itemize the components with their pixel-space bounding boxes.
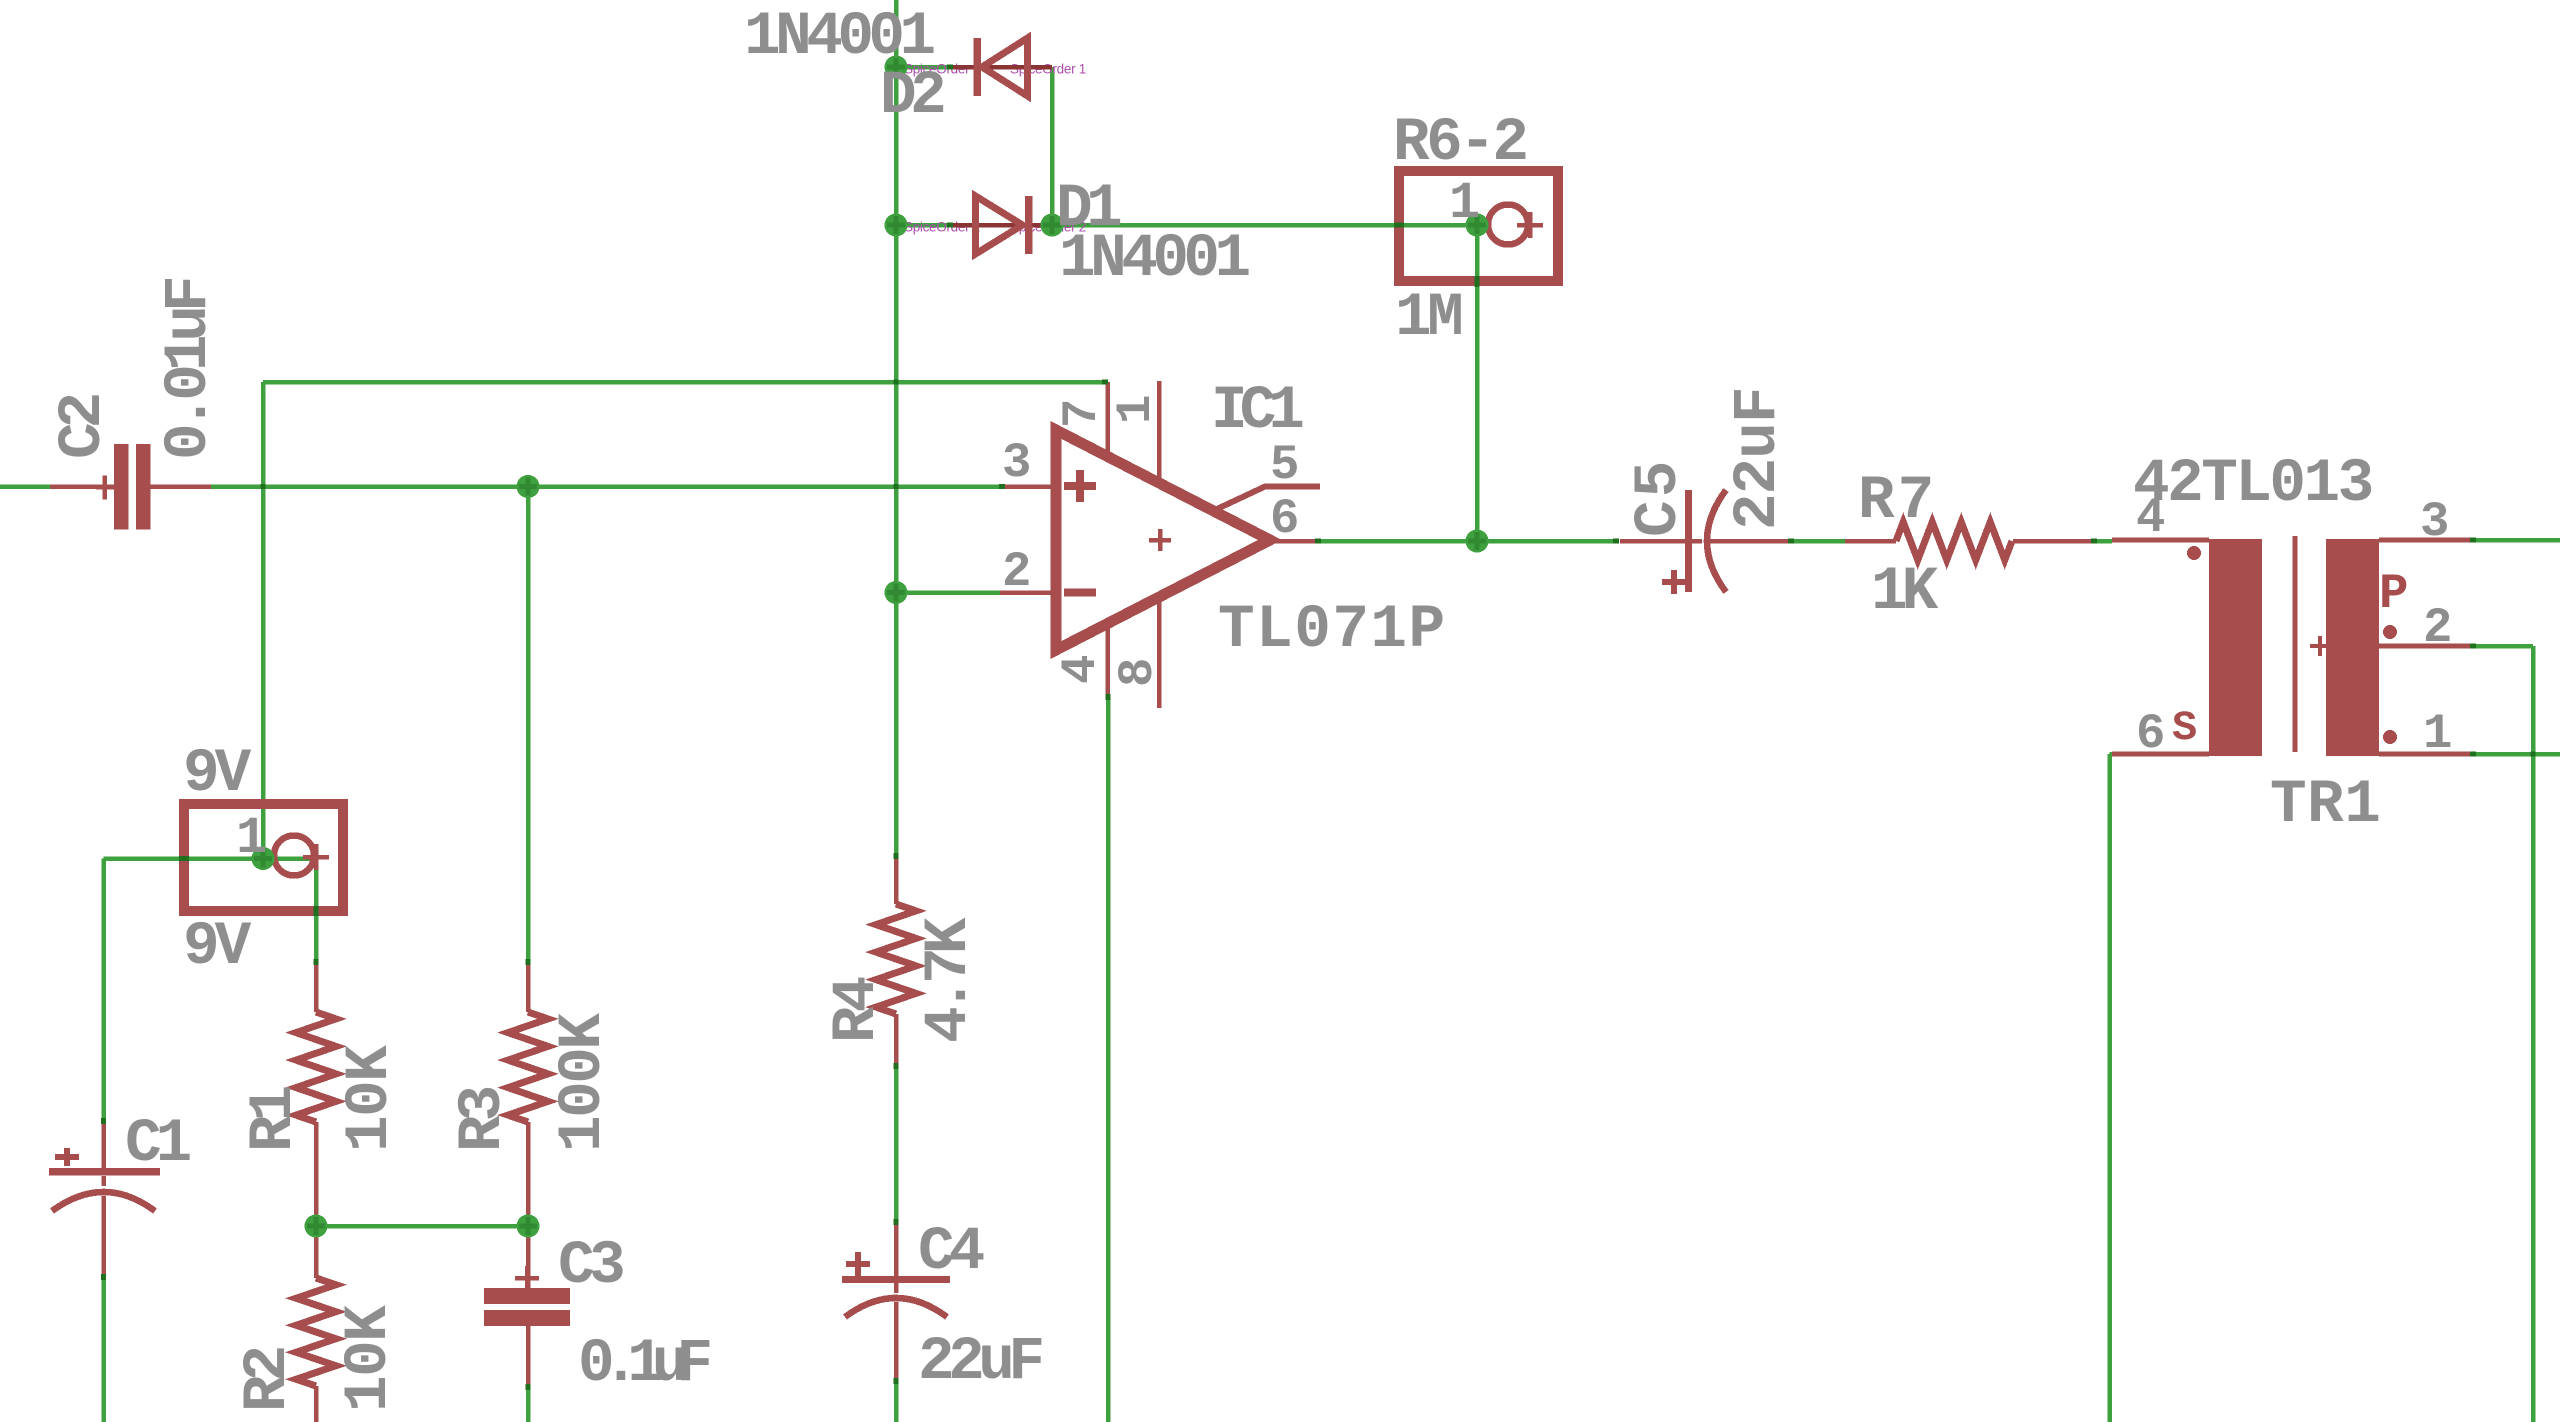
junction node R3-C3 bbox=[517, 1215, 540, 1238]
svg-text:1: 1 bbox=[236, 809, 267, 868]
svg-text:2: 2 bbox=[1002, 544, 1031, 600]
svg-text:TR1: TR1 bbox=[2270, 771, 2381, 840]
svg-text:C5: C5 bbox=[1625, 458, 1694, 537]
op-amp IC1 pin 6 output stub bbox=[1270, 539, 1315, 544]
svg-text:C4: C4 bbox=[918, 1218, 984, 1287]
junction node D1 right bbox=[1041, 214, 1064, 237]
capacitor C5 stub bbox=[1692, 539, 1702, 544]
transformer TR1 pin 3 lead bbox=[2379, 538, 2474, 543]
op-amp IC1 minus input mark bbox=[1064, 589, 1096, 597]
wire 9V row down to C1 bbox=[101, 859, 106, 1119]
diode D1 anode triangle (points right) bbox=[976, 196, 1023, 254]
capacitor C3 top lead bbox=[526, 1226, 531, 1288]
wire C3 bottom to lower edge bbox=[526, 1386, 531, 1422]
op-amp IC1 pin 4 stub bbox=[1105, 624, 1110, 697]
capacitor C5 plus mark bbox=[1662, 570, 1686, 594]
transformer TR1 pin 1 lead bbox=[2379, 752, 2474, 757]
transformer TR1 core line bbox=[2293, 536, 2298, 752]
wire TR1 pin 2 corner down bbox=[2474, 646, 2533, 1422]
op-amp IC1 pin 5 stub bbox=[1217, 487, 1320, 510]
wire op-amp output to C5 bbox=[1315, 539, 1614, 544]
svg-text:R1: R1 bbox=[240, 1086, 309, 1152]
svg-text:0.01uF: 0.01uF bbox=[155, 279, 224, 460]
transformer TR1 secondary winding block bbox=[2326, 539, 2379, 756]
svg-text:3: 3 bbox=[1002, 435, 1031, 491]
capacitor C3 bottom lead bbox=[526, 1326, 531, 1386]
junction node op-amp output bbox=[1466, 530, 1489, 553]
op-amp IC1 pin 3 stub bbox=[1000, 484, 1056, 489]
capacitor C1 bottom lead bbox=[101, 1196, 106, 1278]
wire crossing overlap marks bbox=[894, 380, 899, 385]
wire top row to op-amp pin 7 bbox=[263, 380, 1105, 385]
svg-text:1: 1 bbox=[1449, 174, 1480, 233]
capacitor C4 stub bbox=[894, 1283, 899, 1293]
svg-text:4: 4 bbox=[1053, 655, 1109, 684]
capacitor C4 negative arc bbox=[845, 1298, 947, 1317]
wire R6-2 pin down to op-amp output node bbox=[1475, 225, 1480, 541]
junction node 9V pin 1 bbox=[252, 847, 275, 870]
junction node R1-R2 bbox=[305, 1215, 328, 1238]
op-amp IC1 plus input mark bbox=[1064, 470, 1096, 502]
capacitor C5 negative arc bbox=[1707, 490, 1726, 592]
junction node op-amp pin 2 bbox=[885, 581, 908, 604]
transformer TR1 pin 4 lead bbox=[2112, 538, 2209, 543]
resistor R2 top lead bbox=[314, 1226, 319, 1278]
capacitor C1 negative arc bbox=[52, 1192, 155, 1211]
capacitor C4 top lead bbox=[894, 1224, 899, 1276]
wire C2 to op-amp pin 3 bbox=[211, 484, 1000, 489]
wire main vertical net at x=896 from top edge to R4 bbox=[894, 0, 899, 855]
wire R1 bottom to R2 top junction row bbox=[316, 1224, 528, 1229]
resistor R7 right lead bbox=[2013, 539, 2092, 544]
capacitor C5 right lead bbox=[1709, 539, 1792, 544]
svg-text:10K: 10K bbox=[335, 1305, 404, 1412]
wire op-amp pin 4 down to bottom edge bbox=[1106, 697, 1111, 1422]
svg-text:6: 6 bbox=[1270, 491, 1299, 547]
capacitor C1 plus mark bbox=[55, 1148, 79, 1166]
connector 9V pin circle bbox=[274, 836, 314, 876]
wire R4 bottom to C4 top bbox=[894, 1067, 899, 1224]
diode D2 triangle (points left) bbox=[982, 38, 1028, 96]
transformer TR1 pin 1 phase dot bbox=[2383, 730, 2397, 744]
resistor R4 bottom lead bbox=[894, 1014, 899, 1067]
wire TR1 pin 6 corner down to bottom edge bbox=[2110, 754, 2113, 1422]
resistor R2 bottom lead to edge bbox=[314, 1386, 319, 1422]
capacitor C1 top lead bbox=[101, 1118, 106, 1168]
svg-text:D2: D2 bbox=[880, 62, 944, 131]
svg-text:IC1: IC1 bbox=[1211, 377, 1303, 446]
resistor R1 zigzag bbox=[296, 1012, 336, 1122]
wire op-amp pin 2 from junction bbox=[896, 590, 1000, 595]
capacitor C2 origin cross bbox=[96, 476, 114, 500]
svg-text:8: 8 bbox=[1110, 658, 1166, 687]
resistor R1 top lead bbox=[314, 959, 319, 1012]
wire C5 to R7 bbox=[1792, 539, 1845, 544]
op-amp IC1 pin 8 stub bbox=[1157, 597, 1162, 708]
op-amp IC1 triangle bbox=[1056, 430, 1270, 650]
wire C4 bottom to lower edge bbox=[894, 1382, 899, 1422]
resistor R4 top lead bbox=[894, 855, 899, 904]
svg-text:S: S bbox=[2172, 704, 2197, 752]
resistor R4 zigzag bbox=[876, 904, 916, 1014]
diode D1 cathode bar bbox=[1025, 196, 1033, 254]
wire 9V pin 1 horizontal bbox=[104, 856, 319, 861]
svg-text:1N4001: 1N4001 bbox=[1059, 225, 1250, 294]
svg-text:22uF: 22uF bbox=[1724, 388, 1793, 530]
svg-text:R4: R4 bbox=[823, 977, 892, 1043]
junction node R6-2 pin 1 bbox=[1466, 214, 1489, 237]
transformer TR1 pin 6 lead bbox=[2112, 752, 2209, 757]
svg-text:9V: 9V bbox=[183, 740, 252, 809]
svg-text:1: 1 bbox=[1108, 395, 1164, 424]
capacitor C5 positive plate bbox=[1685, 490, 1692, 592]
svg-text:C2: C2 bbox=[49, 394, 118, 459]
op-amp IC1 center cross bbox=[1149, 529, 1171, 551]
svg-text:C3: C3 bbox=[558, 1232, 623, 1301]
wire D2 row left segment bbox=[896, 65, 950, 70]
resistor R3 top lead bbox=[526, 959, 531, 1012]
capacitor C2 left lead bbox=[50, 484, 114, 489]
resistor R2 zigzag bbox=[296, 1278, 336, 1386]
svg-text:C1: C1 bbox=[125, 1110, 191, 1179]
op-amp IC1 pin 2 stub bbox=[1000, 590, 1056, 595]
junction dot cores (overlap shading) bbox=[254, 58, 1486, 1235]
svg-text:1: 1 bbox=[2423, 706, 2452, 762]
diode D2 lead (dark where SpiceOrder text overlaps) bbox=[950, 65, 1052, 70]
wire vertical from top row down to 9V pin 1 bbox=[261, 382, 266, 859]
junction node D2 left bbox=[885, 56, 908, 79]
wire 9V pin down to R1 bbox=[314, 860, 319, 959]
svg-text:R2: R2 bbox=[234, 1347, 303, 1412]
connector 9V box bbox=[184, 804, 343, 911]
wire TR1 pin 3 to right edge bbox=[2474, 538, 2560, 543]
svg-text:R6-2: R6-2 bbox=[1393, 109, 1526, 178]
wire C1 bottom to lower edge bbox=[101, 1278, 106, 1422]
transformer TR1 pin 4 phase dot bbox=[2187, 546, 2201, 560]
capacitor C5 left lead bbox=[1620, 539, 1685, 544]
wire D1 row left segment bbox=[896, 223, 950, 228]
capacitor C2 right plate bbox=[136, 444, 151, 530]
diode D2 cathode bar bbox=[974, 38, 982, 96]
svg-text:4.7K: 4.7K bbox=[915, 917, 984, 1043]
transformer TR1 pin 2 lead bbox=[2379, 644, 2474, 649]
svg-text:TL071P: TL071P bbox=[1218, 596, 1447, 665]
svg-text:1M: 1M bbox=[1395, 284, 1461, 353]
capacitor C3 origin cross bbox=[515, 1266, 539, 1290]
svg-text:R7: R7 bbox=[1858, 467, 1937, 536]
svg-text:6: 6 bbox=[2136, 706, 2165, 762]
svg-text:R3: R3 bbox=[449, 1087, 518, 1152]
capacitor C3 bottom plate bbox=[484, 1310, 570, 1326]
resistor R3 zigzag bbox=[508, 1012, 548, 1122]
terminal R6-2 pin cross bbox=[1517, 212, 1543, 238]
diode D1 lead (dark where SpiceOrder text overlaps) bbox=[950, 223, 1052, 228]
svg-text:42TL013: 42TL013 bbox=[2133, 450, 2372, 519]
capacitor C4 plus mark bbox=[846, 1252, 870, 1276]
terminal R6-2 box bbox=[1399, 171, 1558, 281]
wire node A down to R3 bbox=[526, 487, 531, 960]
capacitor C4 positive plate bbox=[842, 1276, 950, 1283]
wire input row into C2 from left edge bbox=[0, 484, 50, 489]
resistor R3 bottom lead bbox=[526, 1122, 531, 1226]
svg-text:2: 2 bbox=[2423, 600, 2452, 656]
svg-text:22uF: 22uF bbox=[918, 1328, 1041, 1397]
capacitor C2 right lead bbox=[150, 484, 211, 489]
svg-text:100K: 100K bbox=[549, 1013, 618, 1152]
svg-text:9V: 9V bbox=[183, 913, 252, 982]
svg-text:1K: 1K bbox=[1871, 558, 1939, 627]
svg-text:4: 4 bbox=[2136, 490, 2165, 546]
wire TR1 pin 1 to right edge bbox=[2474, 752, 2560, 757]
svg-text:3: 3 bbox=[2420, 494, 2449, 550]
transformer TR1 primary winding block bbox=[2209, 539, 2262, 756]
terminal R6-2 pin circle bbox=[1488, 205, 1528, 245]
connector 9V pin cross bbox=[303, 844, 329, 870]
resistor R7 left lead bbox=[1845, 539, 1896, 544]
resistor R7 zigzag bbox=[1896, 522, 2012, 560]
svg-text:0.1uF: 0.1uF bbox=[578, 1330, 709, 1399]
resistor R1 bottom lead bbox=[314, 1122, 319, 1226]
junction node D1 left bbox=[885, 214, 908, 237]
capacitor C2 left plate bbox=[114, 444, 129, 530]
svg-text:10K: 10K bbox=[336, 1045, 405, 1152]
transformer TR1 pin 2 phase dot bbox=[2383, 625, 2397, 639]
svg-text:P: P bbox=[2379, 566, 2408, 622]
op-amp IC1 pin 7 stub bbox=[1105, 382, 1110, 456]
transformer TR1 origin cross bbox=[2310, 636, 2330, 656]
svg-text:5: 5 bbox=[1270, 437, 1299, 493]
capacitor C1 stub bbox=[101, 1176, 106, 1186]
wire D1 to R6-2 pin 1 bbox=[1052, 223, 1477, 228]
wire R7 to TR1 pin 4 bbox=[2092, 539, 2112, 544]
capacitor C4 bottom lead bbox=[894, 1302, 899, 1382]
op-amp IC1 pin 1 stub bbox=[1157, 381, 1162, 481]
wire D2 right corner down to D1 row bbox=[1050, 67, 1055, 225]
junction node A on input row bbox=[517, 475, 540, 498]
capacitor C3 top plate bbox=[484, 1288, 570, 1304]
capacitor C1 positive plate bbox=[49, 1168, 160, 1176]
svg-text:7: 7 bbox=[1054, 399, 1110, 428]
